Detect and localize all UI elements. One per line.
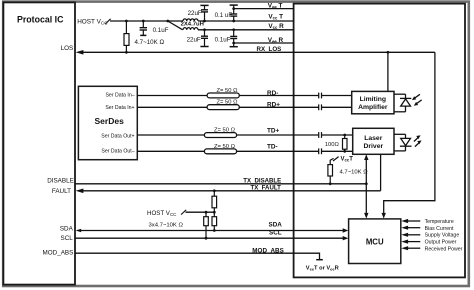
svg-text:Z= 50 Ω: Z= 50 Ω [217,88,239,94]
capacitor C3 0.1uF [230,5,238,21]
svg-text:SCL: SCL [61,235,74,242]
wire HOST Vcc lower [186,211,215,213]
capacitor C2 22uF [200,5,208,21]
junction dots top network [125,7,235,53]
inductor L2 bottom coil [183,28,198,30]
resistor R5 pullup SCL [204,212,209,238]
capacitor C6 coupling RD- [319,93,322,155]
module box [294,4,465,278]
wire RX_LOS route to MCU [384,52,435,213]
resistor R3 4.7-10K pullup TX_DISABLE to VccT [328,157,339,184]
wire Vcc T rail [198,20,294,22]
svg-text:Ser Data Out+: Ser Data Out+ [101,133,134,139]
svg-text:Output Power: Output Power [425,240,457,246]
svg-text:Amplifier: Amplifier [358,104,388,111]
svg-text:Limiting: Limiting [360,96,386,103]
svg-text:RX_LOS: RX_LOS [257,46,282,53]
wire SCL [75,237,343,239]
wire SDA [81,230,344,232]
capacitor C7 coupling RD+ [318,104,320,110]
resistor R4 pullup TX_FAULT [212,191,217,212]
svg-text:Ser Data In–: Ser Data In– [105,92,134,98]
arrow into MCU top from RX_LOS [382,213,386,219]
svg-text:0.1uF: 0.1uF [153,27,169,34]
wire fault vertical to laser driver [380,154,382,191]
wire Vee T rail [234,8,294,10]
svg-text:TD+: TD+ [267,127,280,134]
svg-text:3x4.7~10K Ω: 3x4.7~10K Ω [149,223,184,229]
svg-text:TX_FAULT: TX_FAULT [251,185,282,192]
monitor line Output Power [408,241,421,243]
resistor R1 4.7-10K pullup on LOS [124,21,129,52]
svg-text:22uF: 22uF [188,10,202,17]
wire TD- [137,150,318,152]
svg-text:Ser Data In+: Ser Data In+ [105,105,134,111]
laser diode D2 [394,134,420,151]
capacitor C1 0.1uF [140,21,147,35]
svg-text:Driver: Driver [363,143,383,150]
svg-text:Received Power: Received Power [425,246,463,252]
svg-text:2X4.7uH: 2X4.7uH [181,22,204,28]
capacitor C5 0.1uF [230,30,238,47]
svg-text:FAULT: FAULT [52,188,71,195]
capacitor C8 coupling TD+ [318,132,320,138]
arrow LOS into Protocal IC [76,50,84,55]
svg-text:4.7~10K Ω: 4.7~10K Ω [135,39,165,46]
svg-text:TD-: TD- [267,143,278,150]
MCU U5 [349,219,401,264]
svg-text:Supply Voltage: Supply Voltage [425,233,460,239]
svg-text:SDA: SDA [60,226,74,233]
resistor R2 100 ohm [343,135,348,151]
light arrows out of D2 [414,137,419,142]
svg-text:4.7~10K Ω: 4.7~10K Ω [340,169,369,175]
capacitor C4 22uF [200,30,208,47]
monitor line Temperature [408,220,421,222]
inductor L1 top coil [183,19,198,21]
node LOS tee [387,51,390,54]
svg-text:SCL: SCL [269,230,282,237]
SerDes box U2 [78,86,137,159]
svg-text:Bias Current: Bias Current [425,226,454,232]
op-amp U3 Limiting Amplifier [352,91,394,113]
resistor R6 pullup SDA [212,212,217,230]
svg-text:VeeT or VeeR: VeeT or VeeR [306,265,339,271]
arrow down into MCU [364,213,368,219]
monitor line Supply Voltage [408,234,421,236]
svg-text:TX_DISABLE: TX_DISABLE [243,178,281,185]
svg-text:MOD_ABS: MOD_ABS [252,247,283,254]
svg-text:DISABLE: DISABLE [47,178,74,185]
wire RD- [137,95,318,97]
svg-text:Laser: Laser [364,135,382,142]
wire LOS / RX_LOS [82,51,435,53]
resistor Z2 Z=50 [207,105,239,110]
op-amp U4 Laser Driver [353,128,394,154]
svg-text:SDA: SDA [269,221,283,228]
svg-text:RD-: RD- [267,90,278,97]
photodiode D1 [394,94,422,112]
arrow up into Laser Driver [364,154,368,160]
arrow FAULT into Protocal IC [76,189,84,194]
svg-text:100Ω: 100Ω [325,142,340,148]
svg-text:0.1 uF: 0.1 uF [215,12,233,19]
wire TD+ [137,134,318,136]
wire Vee R rail [234,42,294,44]
svg-text:SerDes: SerDes [95,116,125,126]
wire disable vertical to laser driver and MCU [365,159,367,213]
svg-text:Ser Data Out–: Ser Data Out– [101,148,134,154]
svg-text:Temperature: Temperature [425,219,454,225]
light arrows into D1 [414,94,420,99]
svg-text:Z= 50 Ω: Z= 50 Ω [217,100,239,106]
resistor Z1 Z=50 [207,93,239,98]
monitor line Received Power [408,247,421,249]
wire HOST Vcc [110,20,183,22]
resistor Z3 Z=50 [204,133,236,138]
connector tick HOST Vcc [105,19,110,24]
svg-text:22uF: 22uF [187,36,201,43]
wire TX_FAULT [82,190,381,192]
svg-text:LOS: LOS [61,45,74,52]
Protocal IC box U1 [3,2,75,284]
wire TX_DISABLE [75,183,366,185]
capacitor C9 coupling TD- [318,148,320,154]
node TX_DISABLE tee [365,182,368,185]
svg-text:VccT: VccT [341,156,354,162]
svg-text:MOD_ABS: MOD_ABS [43,249,74,256]
resistor Z4 Z=50 [204,149,236,154]
monitor line Bias Current [408,227,421,229]
wire Vcc split diagonal [168,21,183,30]
svg-text:MCU: MCU [366,237,384,246]
svg-text:Z= 50 Ω: Z= 50 Ω [214,144,236,150]
svg-text:Protocal IC: Protocal IC [17,14,64,24]
svg-text:Z= 50 Ω: Z= 50 Ω [214,128,236,134]
wire MOD_ABS [75,253,320,259]
svg-text:0.1uF: 0.1uF [215,36,231,43]
wire LOS from limiting amp [387,52,389,91]
wire Vcc R rail [198,29,294,31]
svg-text:RD+: RD+ [267,101,280,108]
wire RD+ [137,106,318,108]
